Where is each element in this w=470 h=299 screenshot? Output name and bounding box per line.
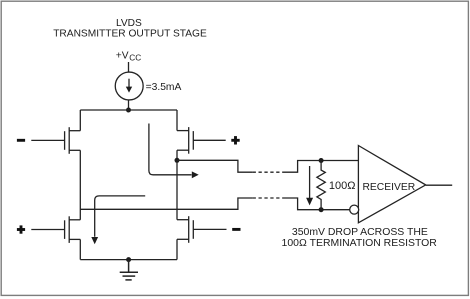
wire current source to top rail <box>128 100 130 110</box>
node resistor bottom junction dot <box>319 207 324 212</box>
wire OUT+ trace to resistor and receiver <box>282 161 358 173</box>
current flow arrow (upper path) <box>149 124 199 179</box>
wire right leg: M2 source to M4 drain <box>176 150 178 220</box>
wire VCC lead to current source <box>128 62 130 72</box>
junction: ground / bottom rail <box>126 257 131 262</box>
transistor M3 (bottom-left) <box>65 216 81 243</box>
current source I1 <box>115 72 143 100</box>
wire right leg: rail to M2 drain <box>176 110 178 131</box>
wire OUT+ trace (upper differential line) <box>177 160 253 172</box>
wire left leg: M3 source to bottom rail <box>79 239 81 259</box>
svg-text:LVDS: LVDS <box>116 18 142 29</box>
net +VCC label <box>116 50 141 62</box>
wire M4 gate lead <box>193 228 226 230</box>
label − input (M4 gate) <box>232 228 240 231</box>
inverting input bubble <box>350 205 359 214</box>
svg-text:100Ω TERMINATION RESISTOR: 100Ω TERMINATION RESISTOR <box>282 238 438 249</box>
svg-text:100Ω: 100Ω <box>329 180 356 192</box>
wire OUT− trace to resistor and receiver bubble <box>282 198 350 210</box>
wire right leg: M4 source to bottom rail <box>176 239 178 259</box>
wire OUT− dashed section <box>253 197 283 199</box>
node OUT+ junction dot <box>175 158 180 163</box>
ground <box>120 260 138 280</box>
svg-text:+V: +V <box>116 50 129 61</box>
transistor M2 (top-right) <box>177 127 193 154</box>
node resistor top junction dot <box>319 158 324 163</box>
wire M3 gate lead <box>31 229 64 231</box>
label + input (M3 gate) <box>17 225 25 233</box>
wire bottom rail <box>80 259 177 261</box>
wire top rail <box>80 109 177 111</box>
current arrow through resistor <box>306 166 313 205</box>
wire OUT+ dashed section <box>253 171 283 173</box>
junction: current source / top rail <box>126 108 131 113</box>
wire left leg: M1 source to M3 drain <box>79 150 81 220</box>
svg-text:=3.5mA: =3.5mA <box>146 82 182 93</box>
wire OUT− trace (lower differential line) <box>80 198 252 209</box>
transistor M4 (bottom-right) <box>177 216 193 243</box>
label − input (M1 gate) <box>17 139 25 142</box>
svg-text:350mV DROP ACROSS THE: 350mV DROP ACROSS THE <box>292 227 428 238</box>
svg-text:CC: CC <box>129 52 141 62</box>
current flow arrow (lower path) <box>91 196 145 244</box>
wire M1 gate lead <box>31 139 64 141</box>
resistor RT 100Ω (termination) <box>317 161 325 210</box>
caption: 350mV drop note <box>282 227 438 249</box>
label + input (M2 gate) <box>231 136 239 144</box>
title <box>53 18 207 40</box>
wire M2 gate lead <box>193 139 225 141</box>
op-amp receiver U1 <box>358 146 425 223</box>
wire left leg: rail to M1 drain <box>79 110 81 131</box>
wire receiver output <box>426 184 453 186</box>
svg-text:TRANSMITTER OUTPUT STAGE: TRANSMITTER OUTPUT STAGE <box>53 29 207 40</box>
svg-text:RECEIVER: RECEIVER <box>363 182 416 193</box>
transistor M1 (top-left) <box>65 127 81 154</box>
